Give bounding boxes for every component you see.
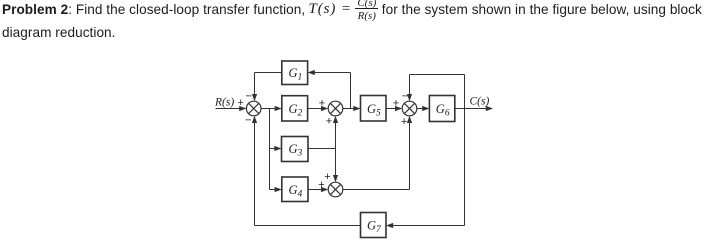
svg-text:+: +	[238, 97, 244, 109]
block G4	[282, 177, 308, 202]
wire branch down to G3 and G4	[270, 109, 282, 193]
wire R(s) input	[216, 106, 247, 111]
wire feedback C tap down to G7	[386, 109, 465, 229]
block G2	[282, 96, 308, 121]
block G5	[361, 96, 387, 122]
svg-text:R(s): R(s)	[214, 97, 234, 109]
wire S4 output to S3 bottom	[343, 116, 412, 190]
summing junction S3	[402, 101, 417, 116]
wire G2 to S2	[308, 106, 329, 111]
svg-text:G5: G5	[367, 102, 381, 119]
svg-text:C(s): C(s)	[470, 96, 490, 108]
wire feedback C tap to S3 top	[407, 75, 465, 109]
title line 1	[2, 2, 305, 17]
svg-text:+: +	[326, 116, 332, 128]
wire G6 to C(s) output	[455, 106, 493, 111]
wire G1 output to S1 top	[252, 73, 282, 102]
svg-text:G1: G1	[289, 66, 303, 83]
wire S3 to G6	[417, 106, 430, 111]
svg-text:−: −	[402, 91, 408, 103]
svg-text:G2: G2	[289, 102, 303, 119]
svg-text:−: −	[246, 91, 252, 103]
wire G5 to S3	[386, 106, 402, 111]
summing junction S2	[328, 101, 343, 116]
svg-text:G3: G3	[289, 142, 303, 159]
svg-text:G7: G7	[367, 219, 382, 236]
block G1	[282, 61, 308, 85]
summing junction S4	[328, 182, 343, 197]
wire G7 output to S1 bottom	[252, 116, 361, 226]
wire G3 output branch to S2 and S4	[308, 116, 338, 182]
svg-text:+: +	[393, 97, 399, 109]
svg-text:G6: G6	[436, 102, 450, 119]
fraction C(s)/R(s)	[355, 0, 378, 9]
svg-text:+: +	[401, 116, 407, 128]
block G6	[429, 96, 454, 122]
svg-text:−: −	[245, 115, 251, 127]
wire G4 to S4	[308, 187, 328, 192]
summing junction S1	[246, 101, 261, 116]
math T(s) =	[309, 1, 352, 18]
title line 2	[2, 25, 116, 40]
svg-text:+: +	[319, 97, 325, 109]
block G7	[361, 213, 387, 238]
svg-text:G4: G4	[289, 183, 303, 200]
wire S2 to G5 with tap to G1	[308, 70, 361, 111]
title line 1 rest	[382, 2, 702, 17]
svg-text:+: +	[324, 171, 330, 183]
block G3	[282, 137, 309, 162]
wire S1 to G2	[261, 106, 282, 111]
